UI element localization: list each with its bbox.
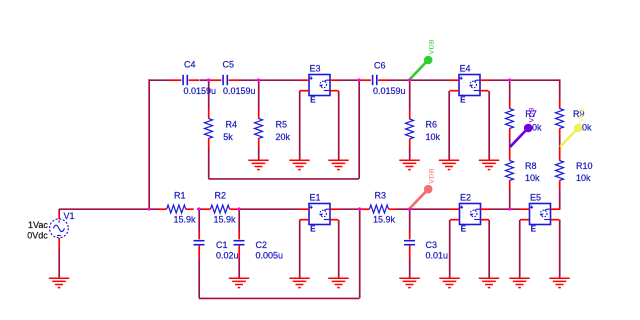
svg-text:VDB: VDB	[579, 107, 586, 123]
op-amp block E3 (VCVS)	[309, 64, 330, 105]
resistor R4	[205, 110, 238, 148]
marker VDB green (band-pass output node)	[410, 39, 435, 79]
capacitor C6	[360, 60, 406, 96]
red stub R10 top	[559, 148, 561, 152]
wire C1 node down	[198, 209, 200, 231]
ground under E5 - input	[509, 278, 529, 287]
ground under E2 - input	[439, 278, 459, 287]
wire top row: R6 node to E4 + input	[410, 79, 451, 81]
svg-text:C5: C5	[223, 59, 235, 69]
wire R7 bottom to R8 node	[509, 138, 511, 148]
svg-text:E: E	[531, 225, 537, 234]
svg-text:R8: R8	[525, 161, 537, 171]
svg-text:E4: E4	[460, 64, 471, 74]
resistor R9	[556, 100, 593, 138]
svg-text:0Vdc: 0Vdc	[27, 231, 48, 241]
E3 pins	[300, 80, 340, 91]
ground under V1	[49, 278, 69, 287]
wire top row: feedback corner to C4	[149, 79, 171, 81]
svg-text:1Vac: 1Vac	[28, 220, 48, 230]
svg-text:R6: R6	[426, 120, 438, 130]
wire bottom row: node to R1	[149, 208, 159, 210]
wire C5 node down to R5	[258, 80, 260, 110]
resistor R3	[362, 191, 397, 225]
op-amp block E1 (VCVS)	[309, 193, 330, 234]
wire R6 bottom to ground	[409, 148, 411, 161]
svg-text:0.005u: 0.005u	[256, 251, 284, 261]
ground under C3	[399, 278, 419, 287]
svg-text:R3: R3	[375, 191, 387, 201]
svg-text:E1: E1	[310, 193, 321, 203]
svg-text:0.02u: 0.02u	[216, 251, 239, 261]
wire C2 node down	[238, 209, 240, 231]
svg-text:R2: R2	[215, 191, 227, 201]
svg-text:5k: 5k	[223, 132, 233, 142]
wire E1 - input down to ground	[299, 220, 301, 278]
wire bottom row: R2 node to E1 + input	[239, 208, 300, 210]
ground under E2 - output	[479, 278, 499, 287]
svg-text:R1: R1	[174, 191, 186, 201]
node dot E3 output	[357, 78, 360, 81]
wire R8 bottom to bottom row	[509, 190, 511, 210]
node dot R2 out / C2	[237, 207, 240, 210]
wire bottom row: C3 node to E2 + input	[410, 208, 451, 210]
svg-text:10k: 10k	[525, 173, 540, 183]
wire top feedback horizontal to R4	[209, 178, 360, 180]
wire top row: R7 node to R9 column	[510, 79, 560, 81]
capacitor C5	[210, 59, 256, 96]
wire E5 - output down to ground	[559, 220, 561, 279]
wire top row: C4 to C5 segment	[200, 79, 211, 81]
wire E3 output node down (feedback)	[358, 80, 360, 179]
wire top row corner down to R9	[559, 79, 561, 99]
svg-text:VDB: VDB	[429, 39, 436, 55]
resistor R7	[506, 100, 543, 138]
node dot R3 out / C3 / marker	[408, 207, 411, 210]
svg-text:C4: C4	[184, 59, 196, 69]
resistor R10	[556, 152, 593, 190]
svg-text:R4: R4	[226, 120, 238, 130]
resistor R2	[203, 191, 238, 225]
node dot C6 out / R6 / marker	[408, 78, 411, 81]
node dot E2 output / R8	[508, 207, 511, 210]
wire left feedback vertical x=149	[148, 79, 150, 209]
resistor R6	[406, 110, 441, 148]
svg-text:15.9k: 15.9k	[214, 214, 237, 224]
wire bottom row: R3 to C3 node	[397, 208, 410, 210]
wire R5 bottom to ground	[258, 148, 260, 161]
ground under E3 - output	[328, 160, 348, 169]
wire R6 node down to R6	[409, 80, 411, 110]
svg-text:VDB: VDB	[529, 107, 536, 123]
resistor R8	[506, 152, 541, 190]
wire E4 - output down to ground	[488, 91, 490, 160]
ground under E4 - output	[479, 160, 499, 169]
node dot R1-R2 / C1	[197, 207, 200, 210]
voltage source V1	[27, 211, 74, 250]
E2 pins	[450, 209, 490, 220]
wire E1 output node down to bus	[359, 209, 361, 298]
capacitor C3	[404, 231, 448, 261]
node dot C5 out / R5	[257, 78, 260, 81]
ground under C2	[229, 278, 249, 287]
svg-text:E: E	[460, 96, 466, 105]
wire top row: E3 output to node	[340, 79, 360, 81]
capacitor C4	[170, 59, 216, 96]
resistor R5	[255, 110, 291, 148]
wire V1 bottom to ground	[58, 250, 60, 279]
capacitor C2	[234, 231, 284, 261]
wire top row: E4 output to R7 node	[490, 79, 510, 81]
node dot input feedback	[147, 207, 150, 210]
svg-text:R5: R5	[276, 120, 288, 130]
node dot E1 output	[358, 207, 361, 210]
svg-text:C6: C6	[374, 60, 386, 70]
wire C1 bottom to bus	[198, 259, 200, 299]
E1 pins	[300, 209, 340, 220]
op-amp block E4 (VCVS)	[459, 64, 480, 105]
svg-text:15.9k: 15.9k	[174, 214, 197, 224]
svg-text:E: E	[310, 96, 316, 105]
svg-text:E: E	[461, 225, 467, 234]
svg-text:E: E	[310, 225, 316, 234]
wire top row: node to C6	[359, 79, 360, 81]
wire C3 node down	[409, 209, 411, 231]
ground under E1 - output	[328, 278, 348, 287]
svg-text:10k: 10k	[426, 132, 441, 142]
wire top row: C5 to E3 + input	[239, 79, 300, 81]
wire bottom row: R8 node to E5 + input	[510, 208, 521, 210]
svg-text:10k: 10k	[576, 173, 591, 183]
node dot E4 output / R7	[508, 78, 511, 81]
svg-text:R10: R10	[576, 161, 593, 171]
ground under E3 - input	[289, 160, 309, 169]
svg-text:E3: E3	[310, 64, 321, 74]
wire R7 node down to R7	[509, 80, 511, 100]
wire C4/C5 node down to R4	[208, 80, 210, 110]
marker VDB red (low-pass node)	[410, 168, 435, 208]
wire bottom row: node to R3	[360, 208, 362, 210]
marker VDB violet (R7/R8 divider)	[510, 107, 535, 147]
svg-text:15.9k: 15.9k	[373, 214, 396, 224]
wire E1 - output down to ground	[338, 220, 340, 278]
ground under E4 - input	[439, 160, 459, 169]
wire R9 bottom to R10 node	[559, 138, 561, 148]
svg-text:C2: C2	[256, 240, 268, 250]
wire C3 bottom to ground	[409, 259, 411, 279]
wire E5 - input down to ground	[519, 220, 521, 278]
ground under E5 - output	[549, 278, 569, 287]
node dot C4-C5 / R4	[207, 78, 210, 81]
svg-text:E5: E5	[530, 193, 541, 203]
capacitor C1	[194, 231, 239, 261]
svg-text:VDB: VDB	[429, 168, 436, 184]
resistor R1	[159, 191, 196, 225]
red stub R8 top	[509, 148, 511, 152]
svg-text:0.0159u: 0.0159u	[184, 86, 217, 96]
op-amp block E5 (VCVS)	[530, 193, 551, 234]
svg-text:0.0159u: 0.0159u	[373, 86, 406, 96]
wire V1 top stub to row	[58, 209, 60, 214]
wire bottom row: R1 to R2	[197, 208, 203, 210]
svg-text:0.01u: 0.01u	[426, 251, 449, 261]
wire E4 - input down to ground	[448, 91, 450, 160]
wire E2 - input down to ground	[449, 220, 451, 278]
wire R10 bottom to E5 output	[559, 190, 561, 210]
svg-text:0.0159u: 0.0159u	[223, 86, 256, 96]
svg-text:C1: C1	[216, 240, 228, 250]
marker VDB yellow (R9/R10 divider)	[560, 107, 585, 147]
wire bottom row: E2 output to R8 node	[490, 208, 510, 210]
wire R4 bottom to feedback	[208, 148, 210, 179]
wire E3 - input down to ground	[299, 91, 301, 160]
wire bottom bus horizontal	[199, 297, 360, 299]
wire top row: C6 to R6 node	[389, 79, 410, 81]
svg-text:20k: 20k	[276, 132, 291, 142]
ground under E1 - input	[289, 278, 309, 287]
ground under R5	[248, 160, 268, 169]
wire E2 - output down to ground	[488, 220, 490, 278]
wire bottom row: V1 to feedback node	[59, 208, 149, 210]
E4 pins	[450, 80, 490, 91]
wire C2 bottom to ground	[238, 259, 240, 279]
svg-text:V1: V1	[64, 211, 75, 221]
wire bottom row: E1 output to node	[340, 208, 360, 210]
svg-text:C3: C3	[426, 240, 438, 250]
svg-text:E2: E2	[460, 193, 471, 203]
ground under R6	[399, 160, 419, 169]
wire E3 - output down to ground	[338, 91, 340, 160]
op-amp block E2 (VCVS)	[460, 193, 481, 234]
E5 pins	[520, 209, 560, 220]
